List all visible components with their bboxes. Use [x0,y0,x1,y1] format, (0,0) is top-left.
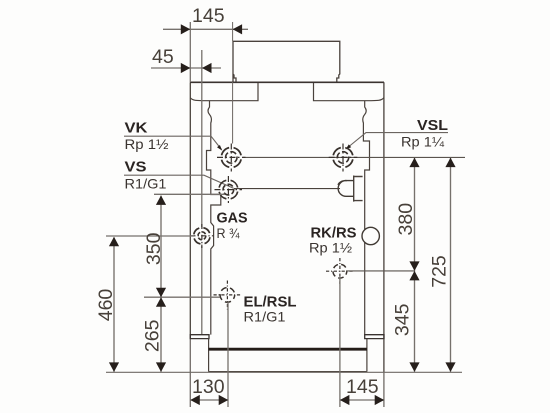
dim 265 arrows [156,297,166,372]
symbol RK/RS position [326,258,354,284]
dim 145 top: extension right / VK vertical [232,22,234,144]
svg-text:VS: VS [125,159,147,175]
symbol VSL [329,144,358,172]
right casting profile [363,101,370,335]
svg-text:R ¾: R ¾ [217,225,240,241]
VS stub flange on right profile [354,176,363,202]
svg-text:Rp 1½: Rp 1½ [309,240,352,256]
dim 145 top line [163,28,248,30]
left lifting ear [190,83,258,101]
EL/RSL extension down [227,302,229,407]
svg-text:460: 460 [95,289,117,322]
bottom right foot flange [365,335,384,339]
RK/RS level line to right dims [346,270,415,272]
dim 460 line [113,238,115,372]
right outer edge [383,82,385,372]
symbol GAS [191,224,214,248]
svg-text:145: 145 [346,376,379,398]
svg-text:VSL: VSL [417,118,448,134]
dim 45 arrows [181,63,212,73]
dim 145 top: extension left [189,22,191,82]
svg-text:R1/G1: R1/G1 [244,309,286,325]
svg-text:725: 725 [429,255,451,288]
dim 725 arrows [445,158,455,372]
left plinth edge [208,339,210,372]
VK leader arrowhead [217,145,222,151]
dim 345 arrows [409,271,419,372]
RK/RS extension down [339,278,341,407]
dim 45 line [151,67,221,69]
dim 145 top arrows [181,24,242,34]
VS stub capsule [338,181,354,197]
dim 350 arrows [156,195,166,297]
base thick bar [209,348,367,351]
right edge extension to bottom dim [383,372,385,407]
RK/RS circle connector [362,227,379,244]
symbol EL/RSL [214,281,242,310]
svg-text:345: 345 [392,303,414,336]
svg-text:265: 265 [142,319,164,352]
right lifting ear [314,83,384,101]
dim 145 bottom arrows [340,395,384,405]
svg-text:130: 130 [192,376,225,398]
ref line EL/RSL level [144,296,220,298]
left casting profile [207,101,221,335]
VSL leader arrowhead [346,144,352,149]
dim 130 arrows [190,395,228,405]
symbol VS [215,176,243,203]
dim 380/345 line [414,158,416,372]
symbol VK [217,144,246,172]
svg-text:R1/G1: R1/G1 [125,176,167,192]
svg-text:380: 380 [395,203,417,236]
dim 460 arrows [109,237,119,372]
connection level line VK-VSL-right dims [243,156,465,158]
right plinth edge [366,339,368,372]
bottom left foot flange [190,335,209,339]
ref line 350 top [154,193,225,195]
svg-text:Rp 1¼: Rp 1¼ [401,134,444,150]
dim 145 bottom line [340,399,384,401]
VS leader [124,175,234,188]
svg-text:350: 350 [143,232,165,265]
svg-text:Rp 1½: Rp 1½ [125,136,169,152]
VSL leader [347,133,449,149]
svg-text:45: 45 [152,46,174,68]
dim 380 arrows [409,158,419,271]
left edge extension to bottom dim [189,339,191,407]
dim 350/265 line [160,196,162,372]
dim 130 line [190,399,228,401]
svg-text:GAS: GAS [217,210,248,226]
body top edge [190,81,384,83]
connection level line VS to stub [234,188,340,190]
left inner panel line (45/GAS extension) [201,50,203,335]
ref line 460 top (GAS level) [106,235,194,237]
svg-text:145: 145 [192,5,225,27]
svg-text:VK: VK [125,121,149,137]
VK leader [124,136,222,149]
left outer edge [189,82,191,338]
dim 725 line [450,158,452,372]
base bottom edge [209,371,367,373]
top flue box [233,41,340,81]
floor line [106,371,462,373]
